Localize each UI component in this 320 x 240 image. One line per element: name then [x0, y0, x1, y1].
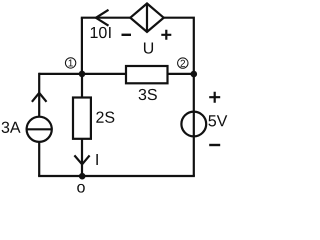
wire: vertical from node 1 up to top-left corner	[81, 18, 83, 74]
minus sign of U	[122, 34, 132, 36]
wire: top horizontal from corner to diamond left vertex	[81, 17, 131, 19]
wire: middle horizontal rail node 1 to node 2	[39, 73, 194, 75]
voltage source 5V (circle)	[181, 112, 206, 137]
node 2 junction dot	[191, 71, 198, 78]
wire: bottom horizontal rail	[38, 175, 195, 177]
plus sign of U	[161, 30, 171, 40]
node o label	[77, 184, 85, 193]
node 1 label (circled 1)	[65, 58, 75, 68]
arrow of current I (points down on middle branch)	[74, 155, 89, 164]
arrow of controlling current 10I (points left on top wire)	[96, 10, 109, 26]
wire: diamond right vertex to top-right corner down to node 2	[164, 18, 194, 74]
dependent source U (diamond)	[130, 4, 163, 32]
label 3S	[139, 89, 157, 100]
current source 3A (circle)	[27, 117, 52, 142]
wire: middle vertical branch	[81, 74, 83, 176]
label 2S	[96, 112, 114, 123]
minus sign of 5V	[209, 144, 220, 146]
dependent source U internal line	[146, 4, 148, 32]
voltage source 5V internal line	[193, 112, 195, 137]
wire: right vertical branch	[193, 74, 195, 176]
node 2 label (circled 2)	[178, 58, 188, 68]
arrow of 3A (points up on left branch)	[32, 93, 47, 102]
label U	[144, 42, 153, 53]
node o junction dot	[79, 173, 86, 180]
label 10I	[91, 27, 107, 38]
label 3A	[2, 122, 21, 133]
wire: left vertical branch	[38, 73, 40, 176]
label 5V	[208, 115, 227, 126]
resistor 3S (horizontal box)	[126, 66, 168, 83]
resistor 2S (vertical box)	[73, 98, 91, 139]
node 1 junction dot	[79, 71, 86, 78]
current source 3A internal bar	[27, 128, 52, 130]
plus sign of 5V	[209, 92, 220, 103]
label I	[96, 154, 97, 165]
